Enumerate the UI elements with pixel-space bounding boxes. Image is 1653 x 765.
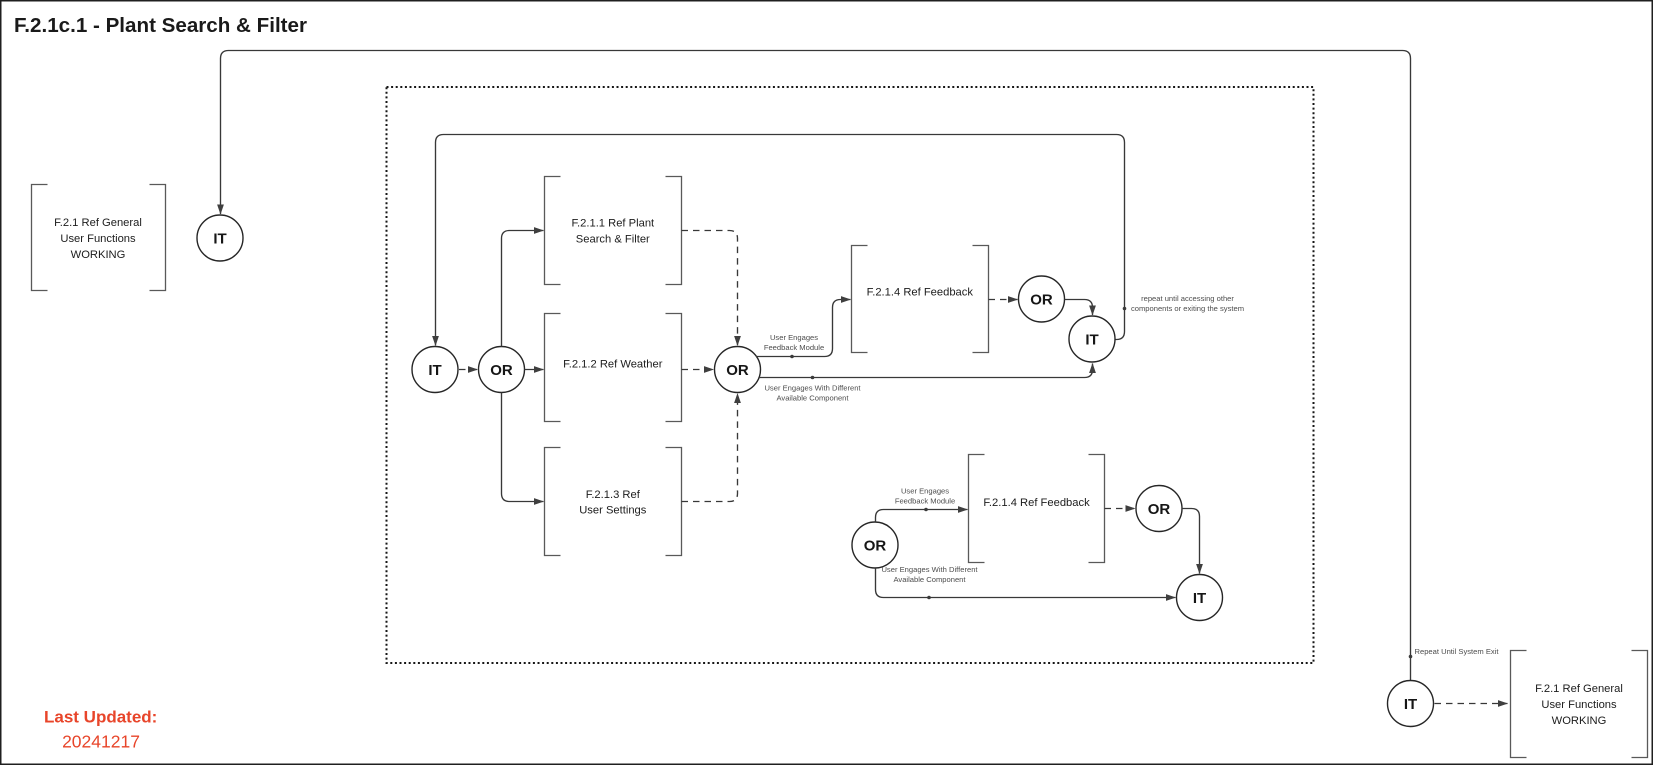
wire: F.2.1.3 to OR dashed [682,394,738,502]
svg-text:User Functions: User Functions [60,233,136,245]
circle OR (merge) [715,347,761,393]
circle IT (lower exit) [1177,575,1223,621]
wire: OR to IT lower exit [1182,509,1200,574]
junction dot on repeat loop [1409,655,1413,659]
dotted subsystem boundary [387,87,1314,663]
svg-text:User Settings: User Settings [579,504,647,516]
node box F.2.1.4 Ref Feedback (lower) [969,455,1105,563]
wire: IT to F.2.1 Ref General dashed [1435,703,1508,705]
svg-text:Repeat Until System Exit: Repeat Until System Exit [1415,647,1500,656]
svg-text:Last Updated:: Last Updated: [44,708,157,727]
svg-text:WORKING: WORKING [1552,715,1607,727]
svg-text:OR: OR [726,362,749,379]
wire: F.2.1.1 to OR dashed [682,231,738,346]
wire: OR down to F.2.1.3 [502,393,544,502]
svg-text:F.2.1.4 Ref Feedback: F.2.1.4 Ref Feedback [867,287,974,299]
svg-text:F.2.1.3 Ref: F.2.1.3 Ref [586,489,641,501]
wire: OR to F.2.1.4 lower [876,510,968,523]
wire: F.2.1.2 to OR dashed [682,369,714,371]
svg-text:User Engages With Different: User Engages With Different [764,384,861,393]
svg-text:F.2.1 Ref General: F.2.1 Ref General [1535,683,1623,695]
junction dot [811,376,815,380]
wire: F.2.1.4 to OR dashed [989,299,1018,301]
svg-text:IT: IT [213,230,226,247]
circle IT (inner entry) [412,347,458,393]
circle OR (after feedback) [1019,276,1065,322]
svg-text:Available Component: Available Component [776,394,849,403]
svg-text:OR: OR [490,362,513,379]
wire: inner repeat loop from IT back to inner IT [436,135,1125,346]
svg-text:OR: OR [864,537,887,554]
svg-text:User Engages: User Engages [770,333,818,342]
wire: IT to OR dashed [459,369,478,371]
svg-text:20241217: 20241217 [62,732,140,752]
svg-text:Search & Filter: Search & Filter [576,234,650,246]
wire: big repeat loop from bottom IT to top IT [221,51,1411,681]
wire: OR to IT (available component) [759,364,1093,378]
svg-text:IT: IT [428,362,441,379]
circle OR (lower exit) [1136,486,1182,532]
junction dot on inner loop [1123,307,1127,311]
svg-text:F.2.1.4 Ref Feedback: F.2.1.4 Ref Feedback [983,497,1090,509]
circle IT (inner exit) [1069,316,1115,362]
svg-text:OR: OR [1030,291,1053,308]
node box F.2.1.4 Ref Feedback (upper) [852,246,989,353]
svg-text:IT: IT [1085,331,1098,348]
svg-text:OR: OR [1148,501,1171,518]
svg-text:IT: IT [1404,696,1417,713]
wire: OR to F.2.1.2 [525,369,544,371]
svg-text:User Functions: User Functions [1541,699,1617,711]
wire: OR to F.2.1.4 feedback [756,300,851,357]
junction dot [927,596,931,600]
svg-text:F.2.1.2 Ref Weather: F.2.1.2 Ref Weather [563,359,663,371]
svg-text:User Engages: User Engages [901,487,949,496]
wire: OR to IT [1065,300,1093,316]
circle OR (lower branch) [852,522,898,568]
svg-text:Feedback Module: Feedback Module [895,497,955,506]
wire: OR down to IT lower [876,568,1176,598]
node box F.2.1.2 Ref Weather [545,314,682,422]
circle IT (bottom-right exit) [1388,681,1434,727]
svg-text:F.2.1c.1 - Plant Search & Filt: F.2.1c.1 - Plant Search & Filter [14,14,307,37]
wire: OR up to F.2.1.1 [502,231,544,347]
node box F.2.1 Ref General User Functions (left) [32,185,166,291]
junction dot [790,355,794,359]
svg-text:components or exiting the syst: components or exiting the system [1131,304,1244,313]
node box F.2.1.3 Ref User Settings [545,448,682,556]
svg-text:WORKING: WORKING [71,249,126,261]
svg-text:F.2.1 Ref General: F.2.1 Ref General [54,217,142,229]
node box F.2.1.1 Ref Plant Search & Filter [545,177,682,285]
svg-text:F.2.1.1 Ref Plant: F.2.1.1 Ref Plant [571,218,655,230]
svg-text:User Engages With Different: User Engages With Different [881,565,978,574]
svg-text:repeat until accessing other: repeat until accessing other [1141,294,1234,303]
svg-text:Feedback Module: Feedback Module [764,343,824,352]
circle IT (top-left entry) [197,215,243,261]
node box F.2.1 Ref General User Functions (bottom-right) [1511,651,1648,758]
svg-text:IT: IT [1193,590,1206,607]
svg-text:Available Component: Available Component [893,575,966,584]
circle OR (branch) [479,347,525,393]
wire: F.2.1.4 lower to OR dashed [1105,508,1136,510]
junction dot [924,508,928,512]
